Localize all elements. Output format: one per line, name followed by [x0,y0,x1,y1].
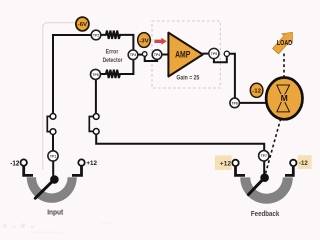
potentiometer body (Feedback) [240,177,293,203]
svg-text:+12: +12 [220,160,232,167]
wire input wiper to TP1 [52,160,54,177]
op-amp U1 (AMP, gain 25) [168,33,202,82]
svg-text:TP4: TP4 [154,53,160,57]
svg-text:-6V: -6V [78,22,88,28]
wire TP1 to switch S1 [52,135,54,152]
red input arrow [154,38,166,45]
svg-text:Gain = 25: Gain = 25 [176,74,199,81]
label Error Detector [103,48,123,64]
potentiometer body (Input) [27,177,77,203]
faint highlight border artifact (left) [43,23,88,170]
wire node B down to TP6 [229,54,235,98]
wire feedback pot right terminal [285,166,293,175]
svg-text:LOAD: LOAD [277,38,293,47]
test point TP3 [128,50,138,60]
svg-text:TP7: TP7 [261,154,267,158]
feedback pot right terminal [290,160,296,166]
badge -3V [138,33,151,48]
label -12 (input left) [10,160,19,167]
wire node A to TP4 [145,56,157,61]
svg-text:TP5: TP5 [211,52,217,56]
test point TP6 [230,98,240,108]
LOAD banner [270,28,297,56]
wire input pot right terminal [72,166,82,175]
svg-text:-12: -12 [10,160,19,167]
wire TP7 to feedback wiper pivot [263,160,265,174]
svg-text:TP3: TP3 [130,53,136,57]
node A (summing junction) [142,52,147,57]
test point TP1 [48,151,58,161]
label Input [47,208,64,217]
feedback pot left terminal [232,160,238,166]
svg-text:TP8: TP8 [92,73,98,77]
badge -6V [76,17,89,31]
wire R2 to TP3 [126,60,133,74]
test point TP4 [152,50,162,60]
faint bottom-left smudges [3,223,114,233]
wire switch S1 up, across top, to TP2 [53,35,92,114]
svg-text:Input: Input [47,208,64,217]
wire R1 to TP3 [126,35,133,50]
svg-text:Detector: Detector [103,57,123,64]
wire input pot left terminal [24,166,33,175]
switch S2 (feedback branch) [89,114,99,135]
label Feedback [251,209,280,218]
mechanical link LOAD to motor (dashed) [283,54,285,77]
wire TP8 down to switch S2 [95,80,97,114]
svg-text:M: M [281,93,288,103]
svg-text:AMP: AMP [175,50,190,60]
badge -12 (near motor) [250,83,263,97]
node B (output junction) [224,51,229,56]
svg-text:Feedback: Feedback [251,209,280,218]
svg-text:-12: -12 [299,160,308,167]
badge +12 (feedback left) [215,155,232,170]
test point TP7 [259,151,269,161]
wire amp output to TP5 [203,53,209,55]
mechanical link motor to feedback wiper (dashed) [265,119,281,176]
switch S1 (input branch) [47,114,56,135]
feedback pot wiper [248,173,269,194]
svg-text:+12: +12 [86,160,97,167]
svg-text:TP1: TP1 [50,154,56,158]
label +12 (input right) [86,160,97,167]
wire TP4 to amp input [162,54,169,56]
wire TP6 to motor [239,102,268,104]
wire feedback pot left terminal [236,166,246,175]
svg-text:TP2: TP2 [93,33,99,37]
resistor R2 [101,70,127,78]
input pot left terminal [21,159,27,165]
badge -12 (feedback right) [298,155,312,169]
svg-text:-3V: -3V [139,38,149,44]
svg-text:TP6: TP6 [232,101,238,105]
wire TP3 to node A [138,54,143,56]
dashed box around amplifier [152,21,220,88]
svg-text:-12: -12 [252,89,261,95]
wire TP5 to node B [214,57,227,63]
test point TP8 [91,69,101,79]
input pot right terminal [78,159,84,165]
svg-text:Error: Error [106,48,119,55]
test point TP2 [91,30,101,40]
motor M [266,78,302,120]
input pot wiper [35,175,58,198]
wire switch S2 down and across to TP7 [96,134,264,151]
test point TP5 [209,48,219,58]
resistor R1 [101,31,127,39]
